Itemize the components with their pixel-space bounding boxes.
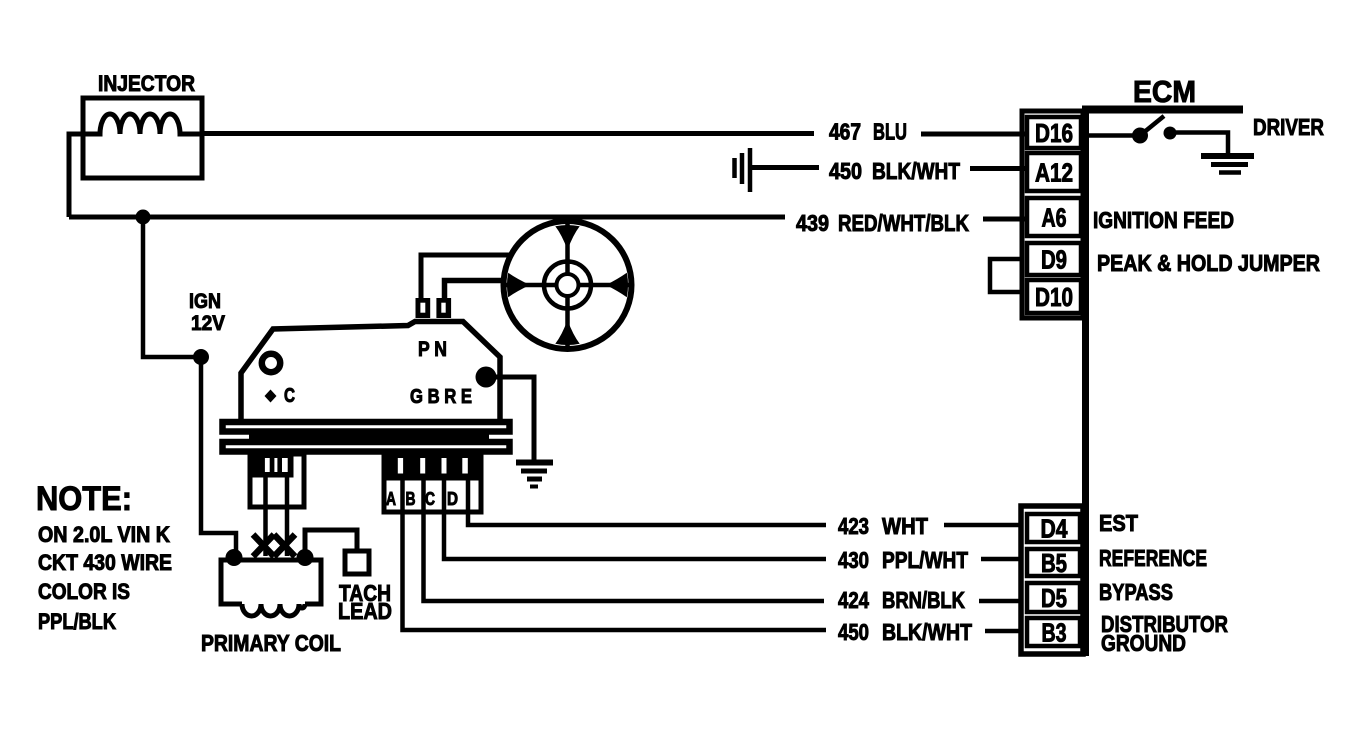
svg-text:D10: D10	[1035, 282, 1073, 312]
svg-text:G B R E: G B R E	[410, 386, 472, 408]
svg-text:424: 424	[838, 587, 869, 613]
svg-text:D9: D9	[1041, 245, 1067, 275]
svg-text:BRN/BLK: BRN/BLK	[882, 587, 965, 613]
svg-text:467: 467	[829, 119, 861, 145]
svg-text:PPL/WHT: PPL/WHT	[882, 547, 968, 573]
svg-text:439: 439	[796, 210, 829, 236]
svg-text:PRIMARY COIL: PRIMARY COIL	[201, 630, 341, 656]
svg-text:EST: EST	[1099, 510, 1138, 536]
svg-text:450: 450	[829, 158, 862, 184]
svg-text:430: 430	[838, 547, 869, 573]
svg-text:PPL/BLK: PPL/BLK	[38, 609, 116, 634]
svg-text:450: 450	[838, 619, 869, 645]
svg-text:GROUND: GROUND	[1101, 630, 1186, 656]
svg-text:WHT: WHT	[882, 513, 928, 539]
svg-text:BLU: BLU	[873, 119, 907, 145]
svg-text:REFERENCE: REFERENCE	[1099, 545, 1207, 571]
svg-text:A12: A12	[1035, 158, 1073, 188]
svg-text:D: D	[447, 489, 458, 509]
svg-text:LEAD: LEAD	[338, 598, 392, 624]
svg-text:INJECTOR: INJECTOR	[98, 71, 195, 96]
svg-text:B3: B3	[1042, 618, 1067, 648]
svg-text:BYPASS: BYPASS	[1099, 579, 1173, 605]
svg-text:B5: B5	[1041, 548, 1067, 578]
svg-text:CKT 430 WIRE: CKT 430 WIRE	[38, 550, 172, 575]
svg-text:DRIVER: DRIVER	[1253, 114, 1324, 140]
svg-text:D5: D5	[1041, 583, 1067, 613]
svg-text:BLK/WHT: BLK/WHT	[872, 158, 960, 184]
svg-text:RED/WHT/BLK: RED/WHT/BLK	[838, 210, 969, 236]
svg-text:IGN: IGN	[189, 290, 221, 313]
svg-text:12V: 12V	[191, 312, 225, 335]
svg-text:PEAK & HOLD JUMPER: PEAK & HOLD JUMPER	[1097, 250, 1320, 276]
svg-text:IGNITION FEED: IGNITION FEED	[1093, 207, 1234, 233]
svg-text:D16: D16	[1035, 118, 1073, 148]
svg-text:C: C	[425, 489, 435, 509]
svg-text:A6: A6	[1042, 203, 1067, 233]
svg-text:423: 423	[838, 513, 869, 539]
svg-text:D4: D4	[1041, 514, 1068, 544]
svg-text:A: A	[386, 489, 396, 509]
svg-text:ECM: ECM	[1133, 74, 1196, 109]
svg-text:NOTE:: NOTE:	[36, 480, 132, 518]
svg-text:C: C	[284, 385, 295, 407]
svg-text:ON 2.0L VIN K: ON 2.0L VIN K	[38, 522, 170, 547]
svg-text:P N: P N	[418, 338, 447, 361]
svg-text:BLK/WHT: BLK/WHT	[882, 619, 972, 645]
svg-text:B: B	[406, 489, 416, 509]
svg-text:COLOR IS: COLOR IS	[38, 579, 130, 604]
